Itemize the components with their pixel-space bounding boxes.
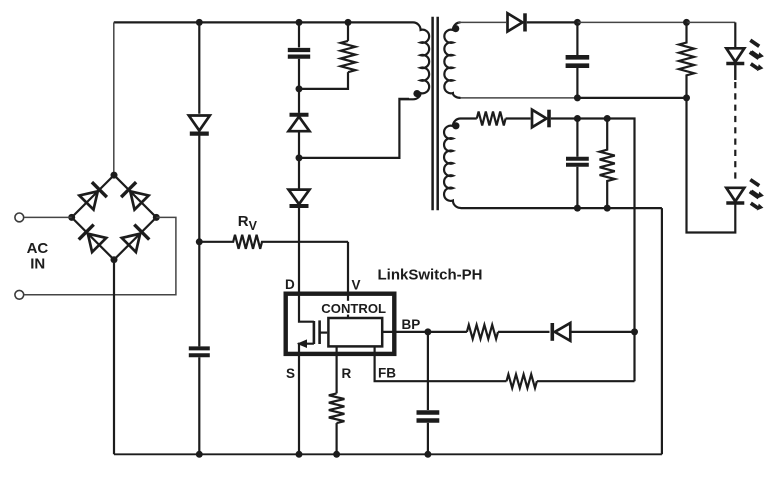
wire: RV junction down to filter cap C1: [198, 242, 200, 347]
diode D1 (pointing down) on x=199 line: [189, 116, 210, 134]
wire: bias resistor to diode D5: [506, 117, 531, 119]
junction dot clamp node: [296, 85, 303, 92]
wire: D4 cathode to output cap node: [527, 21, 578, 23]
wire: drain node right and up to primary winding bottom: [299, 99, 409, 158]
wire: bias rail cap to resistor: [577, 117, 607, 119]
capacitor C2 (clamp): [288, 50, 310, 57]
wire: FB resistor to FB feed vertical: [537, 380, 635, 382]
junction dot top rail x=199: [196, 19, 203, 26]
MOSFET Q1 gate lead to controller: [320, 332, 328, 334]
wire: left vertical from top rail down to bridge top vertex: [113, 22, 115, 175]
LED1 emission arrows: [750, 40, 764, 71]
wire: FB feed vertical (crosses bias return rail): [633, 158, 635, 381]
diode bridge bottom-left (pointing to left vertex): [79, 225, 107, 253]
svg-text:BP: BP: [402, 317, 421, 332]
wire: C1 to bottom rail: [198, 357, 200, 454]
wire: controller FB lead down and right (FB line): [375, 347, 507, 382]
wire: secondary top lead to output diode: [458, 21, 506, 23]
resistor R3 (bias, horizontal): [477, 112, 506, 126]
MOSFET Q1 internal: drain lead: [299, 294, 314, 322]
wire: dashed LED string continuation: [734, 82, 736, 181]
wire: BP resistor to diode D6: [498, 331, 550, 333]
MOSFET Q1 source arrowhead: [297, 339, 307, 348]
wire: V pin internal to controller top (behind CONTROL text): [347, 294, 349, 319]
wire: bridge bottom vertex down to ground rail: [113, 260, 115, 455]
wire: bus line x=199 from top rail to diode D1: [198, 22, 200, 113]
diode bridge top-right (pointing to top vertex): [121, 182, 149, 210]
wire: output rail to LED string corner: [687, 21, 736, 23]
junction dot top rail x=348: [345, 19, 352, 26]
MOSFET Q1 gate bar: [318, 320, 321, 344]
wire: bias bottom return rail: [461, 207, 662, 209]
wire: BP cap to ground rail: [427, 423, 429, 455]
wire: BP cap drop: [427, 332, 429, 410]
svg-text:FB: FB: [378, 366, 396, 381]
wire: R5 to ground rail: [336, 423, 338, 454]
IC U1 LinkSwitch-PH package outline: [286, 294, 395, 354]
bridge rectifier BR1 diamond wires: [72, 175, 157, 260]
controller block (CONTROL box): [328, 318, 382, 346]
wire: S pin to ground rail: [298, 353, 300, 454]
transformer T1 primary winding: [399, 22, 429, 99]
wire: clamp resistor bottom to clamp node: [299, 72, 348, 89]
wire: upper AC terminal to bridge left vertex: [24, 216, 72, 218]
diode D2 (pointing up) clamp blocking: [289, 115, 310, 131]
transformer T1 core: [433, 17, 438, 211]
junction dot ground rail at R pin: [333, 451, 340, 458]
junction dot return at preload: [683, 94, 690, 101]
junction dot ground rail at S pin: [296, 451, 303, 458]
svg-text:AC: AC: [27, 240, 49, 257]
LED2 emission arrows: [750, 180, 764, 211]
wire: return rail cap to preload: [577, 97, 686, 99]
wire: D1 cathode down to RV junction: [198, 134, 200, 242]
wire: top DC bus rail: [114, 21, 413, 23]
junction dot bias node at resistor: [604, 115, 611, 122]
junction dot output+ at preload: [683, 19, 690, 26]
polarity dot primary (bottom): [413, 90, 420, 97]
wire: clamp resistor branch from top rail: [347, 22, 349, 41]
capacitor C4 (bias): [566, 159, 589, 165]
junction dot ground rail at BP cap: [424, 451, 431, 458]
resistor R6 (FB divider, horizontal): [507, 374, 537, 388]
junction dot bias return at resistor: [604, 205, 611, 212]
junction dot drain node: [296, 154, 303, 161]
MOSFET Q1 channel bar: [313, 321, 316, 344]
wire: D3 cathode down to D pin (crosses RV line): [298, 206, 300, 294]
wire: clamp node to D2: [298, 89, 300, 113]
wire: output rail to preload resistor node: [577, 21, 686, 23]
junction dot bias node at cap: [574, 115, 581, 122]
wire: D5 cathode to bias cap node: [551, 117, 578, 119]
wire: D6 anode to FB feed vertical: [570, 331, 634, 333]
wire: BP pin lead out of package: [382, 331, 428, 333]
wire: ground/return bottom rail: [114, 453, 662, 455]
junction dot return at cap: [574, 94, 581, 101]
resistor R5 (R pin program, vertical): [329, 393, 345, 423]
label CONTROL (with white backing): [319, 301, 389, 316]
svg-text:R: R: [342, 366, 352, 381]
diode D5 bias rectifier (pointing right): [532, 110, 549, 128]
LED LED2: [726, 188, 744, 203]
junction dot bias return at cap: [574, 205, 581, 212]
capacitor C5 (BP bypass): [417, 413, 440, 421]
capacitor C3 (output): [566, 57, 590, 65]
wire: clamp cap branch from top rail: [298, 22, 300, 47]
wire: LED string drop: [734, 22, 736, 47]
diode D6 (pointing left) bias to BP: [552, 323, 570, 341]
wire: LED string return to output return rail: [687, 98, 736, 233]
AC input terminal lower: [15, 290, 24, 299]
wire: controller to R pin lead: [336, 347, 338, 394]
svg-text:S: S: [286, 366, 295, 381]
wire: D2 anode down to drain node: [298, 131, 300, 158]
resistor R1 (clamp, vertical): [341, 41, 356, 72]
svg-text:CONTROL: CONTROL: [321, 301, 386, 316]
svg-text:LinkSwitch-PH: LinkSwitch-PH: [378, 267, 483, 284]
junction dot output+ at cap: [574, 19, 581, 26]
svg-text:V: V: [352, 278, 361, 293]
transformer T1 bias winding: [444, 119, 460, 208]
resistor R2 (preload, vertical): [679, 22, 694, 98]
diode D4 output rectifier (pointing right): [508, 13, 526, 31]
junction dot bridge left vertex: [68, 214, 75, 221]
junction dot top rail x=299: [296, 19, 303, 26]
wire: bias rail to FB feed corner: [607, 119, 634, 159]
diode D3 (pointing down) series with drain: [289, 190, 310, 206]
junction dot bottom rail x=199: [196, 451, 203, 458]
junction dot FB feed / BP diode node: [631, 328, 638, 335]
wire: output cap leads: [576, 22, 578, 98]
svg-text:D: D: [285, 277, 295, 292]
junction dot RV tap x=199: [196, 238, 203, 245]
transformer T1 secondary winding: [444, 22, 460, 97]
diode bridge bottom-right (pointing to right vertex): [121, 225, 149, 253]
wire: V pin drop from RV line: [347, 242, 349, 294]
wire: bias top lead to bias resistor: [461, 117, 477, 119]
svg-text:IN: IN: [30, 256, 45, 273]
capacitor C1 (bulk filter): [189, 348, 210, 355]
resistor R4 (bias bleed, vertical): [600, 119, 615, 209]
junction dot BP node: [424, 328, 431, 335]
wire: bias cap leads: [576, 119, 578, 209]
wire: secondary bottom return rail: [461, 97, 578, 99]
AC input terminal upper: [15, 213, 24, 222]
polarity dot bias winding (top): [452, 122, 459, 129]
junction dot bridge right vertex: [153, 214, 160, 221]
MOSFET Q1 source lead with arrow: [299, 344, 314, 353]
wire: lower AC terminal to bridge right vertex: [24, 217, 176, 294]
diode bridge top-left (pointing to top vertex): [79, 182, 107, 210]
resistor RV (horizontal): [199, 235, 348, 249]
resistor R7 (BP supply, horizontal): [467, 325, 498, 339]
junction dot bridge top vertex: [111, 172, 118, 179]
LED LED1: [726, 48, 744, 80]
label AC IN: [27, 240, 49, 273]
wire: clamp cap bottom to clamp node: [298, 59, 300, 89]
polarity dot secondary (top): [452, 25, 459, 32]
junction dot bridge bottom vertex: [111, 256, 118, 263]
wire: drain node to D3: [298, 158, 300, 190]
wire: BP node to BP resistor: [428, 331, 467, 333]
wire: bias return down to ground rail: [661, 208, 663, 454]
